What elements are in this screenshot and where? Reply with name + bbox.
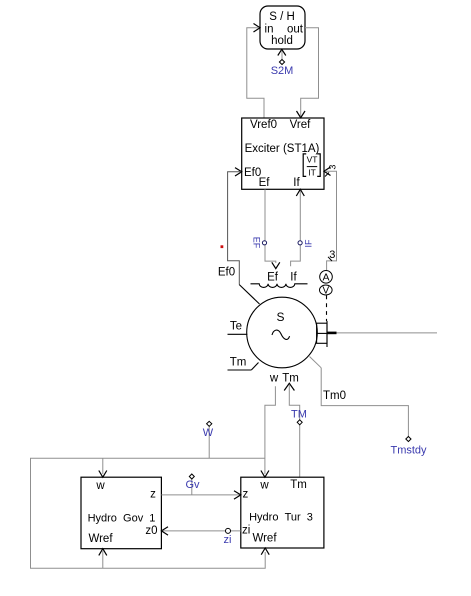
svg-text:S2M: S2M <box>271 65 294 77</box>
wire Ef0 diagonal into machine <box>239 285 259 304</box>
arrow into exciter If <box>296 189 304 196</box>
wire exciter Ef down to field <box>265 189 276 263</box>
synchronous machine S <box>247 297 318 368</box>
wire turbine Tm to machine <box>289 385 299 477</box>
wire machine If up to exciter If <box>291 191 301 266</box>
svg-text:3: 3 <box>327 165 337 170</box>
svg-text:out: out <box>287 24 304 36</box>
arrow into exciter VT/IT input <box>324 167 331 176</box>
machine input Tm <box>228 357 259 371</box>
svg-text:zi: zi <box>224 534 232 546</box>
arrow into turbine Wref <box>261 548 269 555</box>
connector W <box>203 421 214 458</box>
machine field winding <box>251 272 308 288</box>
arrow into exciter Ef0 <box>235 168 242 176</box>
machine output Tm0 <box>310 357 322 368</box>
svg-text:Tmstdy: Tmstdy <box>390 445 427 457</box>
machine terminal box <box>317 321 337 347</box>
machine outputs w Tm <box>269 373 299 385</box>
svg-text:Hydro Gov 1: Hydro Gov 1 <box>88 513 156 525</box>
svg-text:Ef: Ef <box>267 272 279 284</box>
wire Vref0 to S/H in <box>247 28 264 118</box>
wire governor Wref input <box>102 551 104 568</box>
svg-text:Tm: Tm <box>290 479 307 491</box>
voltmeter V <box>320 285 333 297</box>
svg-text:W: W <box>203 427 214 439</box>
svg-text:z: z <box>150 489 156 501</box>
wire 3-phase measurement from machine terminal to exciter <box>325 171 337 270</box>
svg-text:w: w <box>259 480 269 492</box>
connector Gv <box>185 474 200 495</box>
svg-text:Vref: Vref <box>290 119 311 131</box>
wire bus <box>337 332 438 334</box>
svg-text:A: A <box>322 272 329 284</box>
machine input Te <box>228 321 248 335</box>
connector S2M <box>271 49 294 77</box>
svg-text:IF: IF <box>304 239 314 248</box>
arrow Ef down to field winding <box>272 262 280 268</box>
svg-text:Tm: Tm <box>230 357 247 369</box>
sample-hold block S/H <box>260 6 305 49</box>
label VT/IT bracket <box>303 154 320 178</box>
svg-text:Ef: Ef <box>259 177 271 189</box>
svg-text:Wref: Wref <box>88 533 113 545</box>
wire speed feedback loop <box>31 458 266 568</box>
tag IF on If wire <box>298 239 314 248</box>
svg-text:z0: z0 <box>145 525 157 537</box>
ammeter A <box>320 271 333 284</box>
arrow into governor z0 <box>161 527 168 535</box>
svg-text:S: S <box>276 310 284 324</box>
svg-text:Exciter (ST1A): Exciter (ST1A) <box>245 143 320 155</box>
exciter U1 Exciter (ST1A) <box>242 118 324 189</box>
svg-text:TM: TM <box>291 409 307 421</box>
svg-text:Vref0: Vref0 <box>250 119 277 131</box>
arrow into turbine w <box>261 471 269 478</box>
dashed measurement line <box>326 296 328 322</box>
connector zi <box>224 528 232 546</box>
svg-text:IT: IT <box>308 168 316 178</box>
svg-text:S / H: S / H <box>269 11 295 23</box>
svg-text:Wref: Wref <box>252 533 277 545</box>
governor block Hydro Gov 1 <box>81 477 161 549</box>
svg-text:zi: zi <box>242 525 250 537</box>
svg-text:Hydro Tur 3: Hydro Tur 3 <box>249 512 313 524</box>
svg-text:in: in <box>265 24 274 36</box>
tag EF on Ef wire <box>252 237 267 249</box>
wire governor z to turbine z <box>161 494 239 496</box>
wire governor w input <box>102 458 104 474</box>
svg-text:Ef0: Ef0 <box>218 267 235 279</box>
svg-text:z: z <box>243 489 249 501</box>
arrow into governor w <box>99 471 107 478</box>
turbine block Hydro Tur 3 <box>241 477 324 548</box>
connector Tmstdy <box>390 437 427 457</box>
svg-text:V: V <box>322 286 329 297</box>
svg-text:w: w <box>95 480 105 492</box>
svg-text:3: 3 <box>329 249 335 261</box>
svg-text:Te: Te <box>230 321 242 333</box>
arrow into governor Wref <box>99 549 107 556</box>
svg-text:w: w <box>269 373 279 385</box>
wire turbine zi to governor z0 <box>163 530 241 532</box>
arrow into S/H in <box>254 24 261 33</box>
arrow into turbine z <box>234 491 241 499</box>
svg-text:If: If <box>290 272 297 284</box>
svg-text:Gv: Gv <box>185 479 200 491</box>
wire machine Ef0 to exciter Ef0 <box>228 172 241 285</box>
label 3 (top slash) <box>325 165 337 177</box>
svg-text:EF: EF <box>252 237 262 249</box>
wire Tm0 to Tmstdy <box>321 368 408 437</box>
svg-text:Tm0: Tm0 <box>323 390 346 402</box>
arrow into machine Tm <box>284 383 294 390</box>
svg-text:VT: VT <box>307 155 318 165</box>
red marker <box>221 245 224 248</box>
svg-text:hold: hold <box>271 35 293 47</box>
tag TM on Tm wire <box>291 409 307 425</box>
wire S/H out to Vref <box>301 28 319 116</box>
wire machine w to governor/turbine <box>265 386 276 474</box>
label 3 (bottom slash) <box>328 249 335 261</box>
svg-text:Tm: Tm <box>282 373 299 385</box>
arrow into exciter Vref <box>297 111 306 118</box>
svg-text:If: If <box>293 177 300 189</box>
